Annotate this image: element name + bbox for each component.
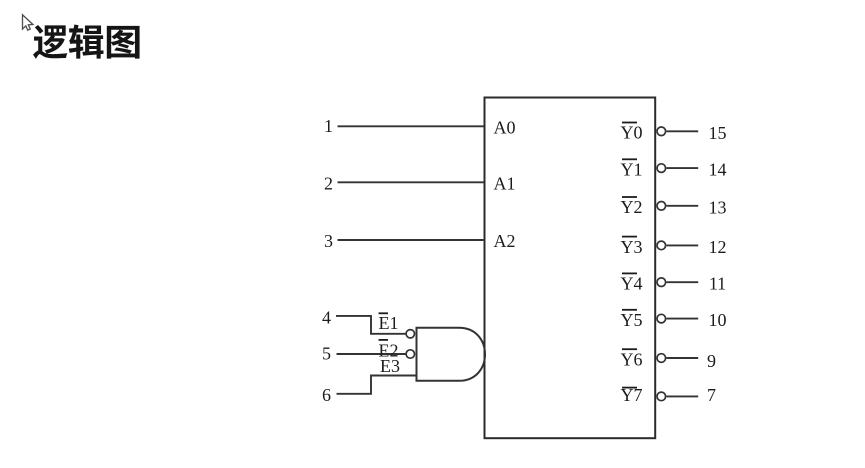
wire Y0 to pin 15 [666, 130, 698, 132]
svg-text:10: 10 [709, 310, 727, 330]
svg-text:14: 14 [709, 160, 727, 180]
svg-text:E3: E3 [380, 356, 400, 376]
IC body U1 (3-to-8 decoder) [485, 98, 656, 439]
wire Y2 to pin 13 [666, 205, 698, 207]
output label Y0 (active low, overbar) [621, 123, 643, 143]
svg-text:13: 13 [709, 197, 727, 217]
svg-text:Y2: Y2 [621, 197, 643, 217]
svg-text:7: 7 [707, 385, 716, 405]
wire pin 5 to E2 bubble [337, 353, 407, 355]
output label Y3 (active low, overbar) [621, 237, 643, 257]
svg-text:A2: A2 [494, 231, 516, 251]
inverter bubble on E1 input [406, 330, 414, 338]
wire Y1 to pin 14 [666, 167, 698, 169]
output label Y1 (active low, overbar) [621, 159, 643, 179]
svg-text:Y1: Y1 [621, 160, 643, 180]
wire pin 1 to A0 [338, 125, 485, 127]
inverter bubble on Y6 output [657, 354, 666, 363]
output label Y4 (active low, overbar) [621, 273, 643, 293]
svg-text:A0: A0 [494, 118, 516, 138]
wire Y7 to pin 7 [666, 395, 698, 397]
AND gate G1 [417, 328, 486, 381]
inverter bubble on Y2 output [657, 202, 666, 211]
svg-text:3: 3 [324, 231, 333, 251]
svg-text:6: 6 [322, 385, 331, 405]
svg-text:12: 12 [709, 237, 727, 257]
wire pin 3 to A2 [338, 239, 485, 241]
inverter bubble on Y1 output [657, 164, 666, 173]
inverter bubble on E2 input [406, 350, 414, 358]
svg-text:Y0: Y0 [621, 123, 643, 143]
output label Y5 (active low, overbar) [621, 310, 643, 330]
output label Y6 (active low, overbar) [621, 349, 643, 369]
svg-text:A1: A1 [494, 174, 516, 194]
wire Y5 to pin 10 [666, 318, 698, 320]
output label Y7 (active low, overbar) [621, 385, 643, 405]
svg-text:1: 1 [324, 116, 333, 136]
enable label E2 (active low, overbar) [379, 340, 399, 361]
wire pin 2 to A1 [338, 181, 485, 183]
svg-text:4: 4 [322, 308, 331, 328]
mouse cursor [23, 15, 33, 30]
wire Y4 to pin 11 [666, 281, 698, 283]
inverter bubble on Y0 output [657, 127, 666, 136]
svg-text:5: 5 [322, 343, 331, 363]
wire Y6 to pin 9 [666, 357, 698, 359]
inverter bubble on Y3 output [657, 241, 666, 250]
svg-text:2: 2 [324, 173, 333, 193]
svg-text:Y5: Y5 [621, 310, 643, 330]
output label Y2 (active low, overbar) [621, 197, 643, 217]
svg-text:9: 9 [707, 351, 716, 371]
svg-text:Y4: Y4 [621, 274, 643, 294]
wire pin 4 to E1 bubble [336, 316, 406, 334]
inverter bubble on Y7 output [657, 392, 666, 401]
svg-text:Y6: Y6 [621, 349, 643, 369]
title 逻辑图 [33, 24, 140, 58]
wire Y3 to pin 12 [666, 244, 698, 246]
svg-text:11: 11 [709, 274, 726, 294]
inverter bubble on Y4 output [657, 278, 666, 287]
svg-text:Y3: Y3 [621, 237, 643, 257]
enable label E1 (active low, overbar) [379, 313, 399, 333]
svg-text:E1: E1 [379, 313, 399, 333]
inverter bubble on Y5 output [657, 314, 666, 323]
svg-text:15: 15 [709, 123, 727, 143]
wire pin 6 to E3 input [337, 376, 417, 394]
